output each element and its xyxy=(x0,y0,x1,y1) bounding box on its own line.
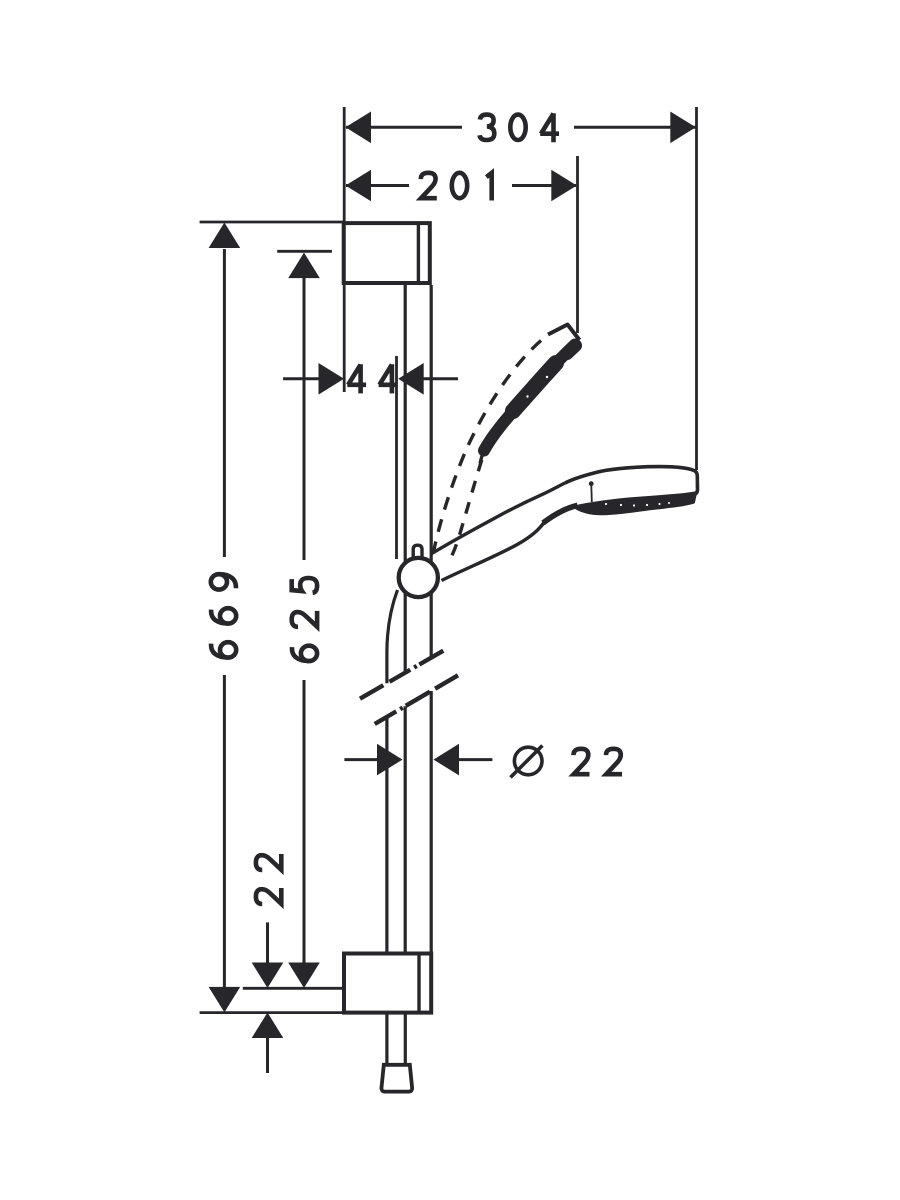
dimension 22 up arrow xyxy=(252,1013,284,1039)
dimension 44 left arrow xyxy=(319,363,345,395)
dimension 304 right arrow xyxy=(670,112,696,144)
dashed spray band thicker middle xyxy=(513,363,556,411)
diameter symbol slash xyxy=(511,746,543,778)
dimension 304 left arrow xyxy=(346,112,372,144)
holder clamp lever xyxy=(413,545,422,559)
dashed handshower right outline xyxy=(451,439,489,559)
break mark slash lower xyxy=(375,675,458,724)
head face small mark xyxy=(590,485,593,503)
dimension 201 left arrow xyxy=(346,170,372,202)
top bracket xyxy=(344,223,430,283)
text 625 rotated xyxy=(292,578,317,661)
dimension 304 line xyxy=(346,126,462,129)
dimension 201 line xyxy=(346,184,409,187)
text 44 xyxy=(347,364,397,393)
dashed band white specks xyxy=(526,376,548,398)
text 22 rotated xyxy=(256,854,281,904)
dimension 669 top arrow xyxy=(209,223,241,249)
shower hose below bottom bracket left xyxy=(385,1013,388,1065)
dimension dia22 right tail xyxy=(458,758,492,761)
text 304 xyxy=(480,113,560,142)
dimension 44 right arrow xyxy=(398,363,424,395)
dimension 22 upper tail xyxy=(266,922,269,963)
diameter symbol circle xyxy=(514,747,542,775)
extension line top for 669 (y=222) xyxy=(200,221,344,224)
spray face white dots xyxy=(605,502,670,507)
wall bar rod left edge xyxy=(404,285,407,673)
dimension 22 down arrow xyxy=(252,963,284,989)
dimension 625 top arrow xyxy=(288,253,320,279)
extension line for 201 (x=577.5) xyxy=(576,156,579,333)
dimension 22 lower tail xyxy=(266,1037,269,1073)
dashed spray band top end xyxy=(567,346,576,354)
shower hose upper curve xyxy=(387,590,398,683)
dashed handshower spray face band xyxy=(484,345,575,451)
shower hose below bottom bracket right xyxy=(404,1013,407,1065)
dimension 669 vertical line xyxy=(223,249,226,557)
extension line bottom for 625/22 (y=988.3) xyxy=(243,987,343,990)
holder ball xyxy=(399,558,438,597)
bottom bracket xyxy=(344,954,431,1013)
extension line left (x=344) xyxy=(343,107,346,392)
handshower spray face band xyxy=(575,493,696,514)
wall bar rod right edge xyxy=(430,285,433,658)
handshower handle top edge xyxy=(431,483,565,554)
text 22 diameter xyxy=(574,749,623,774)
dashed handshower head cap xyxy=(548,325,580,341)
shower hose straight section xyxy=(385,717,388,954)
extension line top for 625 (y=251.3) xyxy=(277,250,332,253)
hose end cap xyxy=(381,1065,412,1092)
text 669 rotated xyxy=(211,574,236,657)
dimension 669 bottom arrow xyxy=(209,987,241,1013)
text 201 xyxy=(421,173,492,201)
dimension 44 right tail xyxy=(423,377,458,380)
dimension dia22 right arrow xyxy=(434,744,460,776)
dimension 625 bottom arrow xyxy=(288,963,320,989)
dashed handshower left outline xyxy=(434,341,542,553)
dimension 44 left tail xyxy=(283,377,319,380)
top bracket inner line xyxy=(417,223,420,283)
handshower head top outline xyxy=(565,467,698,495)
extension line for 44 right (x=396.5) xyxy=(395,356,398,559)
extension line bottom for 669/22 (y=1012.6) xyxy=(200,1011,343,1014)
handle to head junction thick stroke xyxy=(543,505,578,523)
dimension dia22 left tail xyxy=(344,758,378,761)
dashed head band lower solid tip xyxy=(480,448,485,464)
dimension 625 vertical line xyxy=(303,277,306,560)
dimension dia22 left arrow xyxy=(377,744,403,776)
extension line right for 304 (x=696.5) xyxy=(695,107,698,470)
dimension 201 right arrow xyxy=(551,170,577,202)
break mark slash upper xyxy=(360,651,443,699)
bottom bracket inner line xyxy=(417,954,420,1013)
handshower handle bottom edge xyxy=(442,523,545,581)
